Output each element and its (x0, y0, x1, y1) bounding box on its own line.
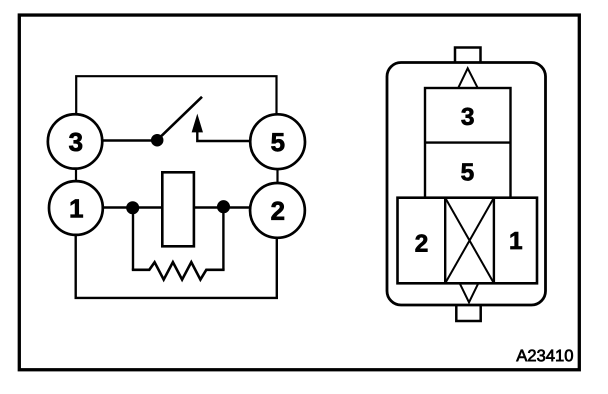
connector bottom tab (456, 303, 480, 321)
connector cavity column box (pins 3/5) (425, 88, 511, 198)
connector cavity 1 label (511, 232, 522, 249)
pin 1 terminal circle (49, 181, 103, 235)
wire left drop to resistor (132, 208, 134, 270)
resistor R1 (132, 262, 225, 279)
switch blade (160, 97, 203, 138)
pin 5 terminal circle (250, 114, 305, 169)
wire coil row (100, 206, 252, 208)
pin 3 terminal circle (48, 114, 102, 168)
connector body outline (387, 63, 546, 306)
connector bottom arrow (460, 284, 478, 302)
wire right drop to resistor (222, 207, 224, 270)
wire stub between pin 5 and pin 2 (276, 160, 278, 190)
junction dot switch pivot (151, 134, 163, 146)
wire top loop between pin 3 and pin 5 (76, 76, 276, 120)
connector cavity 3 label (461, 108, 473, 125)
pin 2 terminal circle (250, 183, 305, 238)
pin 2 label (271, 202, 284, 220)
connector cavity row box (pins 2/1) (398, 198, 538, 284)
connector keyway X diagonal 2 (445, 198, 494, 284)
connector cavity 5 label (461, 163, 473, 180)
connector top tab (455, 48, 481, 65)
wire switch left segment (100, 139, 157, 141)
figure number A23410 (516, 350, 573, 362)
connector cavity 2 label (416, 234, 428, 251)
switch arrowhead (192, 115, 202, 132)
junction dot left of coil (127, 202, 139, 214)
coil L1 (162, 172, 194, 246)
connector row divider right (493, 198, 495, 284)
wire switch right segment with corner (197, 131, 252, 141)
pin 3 label (69, 133, 82, 151)
connector top arrow (458, 68, 477, 87)
pin 1 label (71, 200, 83, 218)
connector keyway X diagonal 1 (445, 198, 494, 284)
connector divider between 3 and 5 (425, 141, 511, 143)
wire bottom loop from pin 1 to pin 2 (76, 230, 277, 298)
junction dot right of coil (217, 201, 229, 213)
wire stub between pin 3 and pin 1 (75, 160, 77, 190)
connector row divider left (444, 198, 446, 284)
pin 5 label (271, 133, 284, 151)
